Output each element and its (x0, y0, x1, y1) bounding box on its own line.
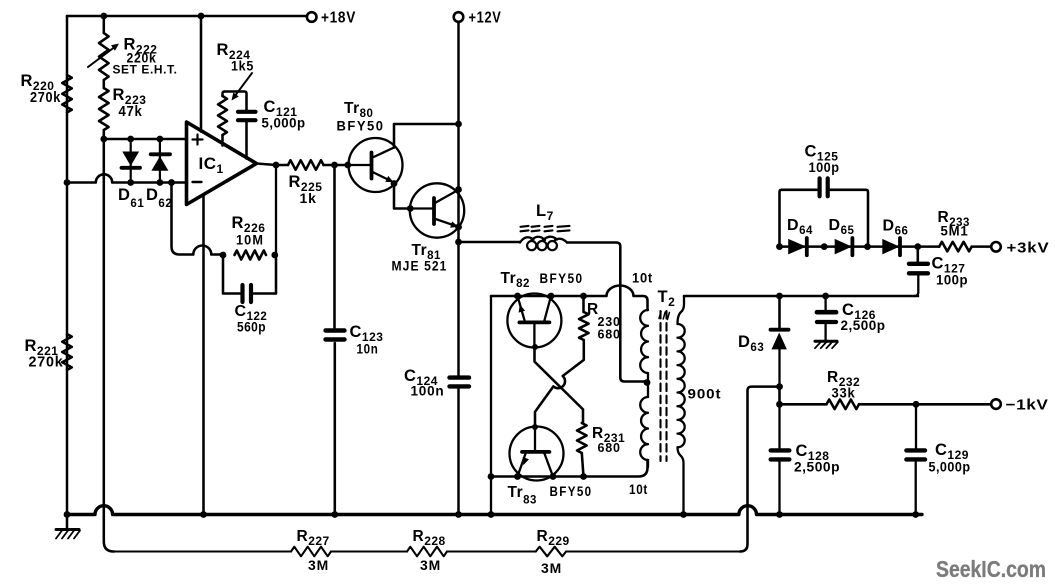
junction Tr81 base (407, 205, 414, 212)
wire +18V top rail (67, 15, 307, 18)
junction C129 / ground bus (912, 511, 919, 518)
junction R226 left (220, 252, 227, 259)
transformer T2 core (658, 288, 676, 461)
wire left rail (66, 16, 69, 515)
wire Tr80 collector to +12V rail (394, 124, 459, 148)
diode D62 (146, 139, 172, 210)
svg-text:+18V: +18V (321, 10, 356, 27)
junction Tr82 emitter top (514, 293, 521, 300)
wire R222-R223 (103, 80, 106, 88)
junction D61 top (127, 136, 134, 143)
wire - input to R226 with hop over IC1 bottom pin (172, 183, 224, 255)
transistor Tr81 (392, 183, 465, 273)
junction left rail / ground bus (488, 511, 495, 518)
wire R232 right to -1kV terminal (859, 403, 991, 406)
junction Tr81 emitter / rail (455, 224, 462, 231)
resistor R224 (217, 41, 255, 146)
resistor R230 (579, 296, 621, 342)
junction R231 bottom (580, 473, 587, 480)
junction left rail / ground bus (64, 511, 71, 518)
wire cross-coupling Tr82 base to R231 (535, 347, 584, 423)
svg-text:270k: 270k (30, 90, 61, 106)
capacitor C127 (909, 247, 968, 296)
junction D65-D66 / C125 node (864, 243, 871, 250)
svg-text:270k: 270k (29, 355, 64, 371)
transformer T2 primary lower winding (10t) (629, 383, 648, 498)
wire multivibrator top rail with hop over tap feed (491, 286, 648, 311)
resistor R229 (536, 528, 570, 576)
svg-text:1k: 1k (300, 190, 317, 206)
junction T2 secondary / ground bus (680, 511, 687, 518)
junction - input / R226 branch (168, 179, 175, 186)
ground (bottom left) (56, 515, 80, 539)
terminal -1kV (991, 397, 1048, 414)
capacitor C122 (223, 255, 276, 335)
wire IC1 supply pin (200, 16, 203, 132)
svg-text:MJE 521: MJE 521 (392, 259, 448, 274)
svg-text:SET E.H.T.: SET E.H.T. (113, 63, 178, 77)
diode D63 (738, 330, 789, 388)
junction C126 top (822, 293, 829, 300)
svg-text:2,500p: 2,500p (794, 460, 840, 475)
wire + input net (104, 138, 187, 141)
junction D66 / C127 node (914, 243, 921, 250)
wire Tr80 emitter to Tr81 base (394, 184, 410, 209)
junction top rail / IC1 supply (198, 13, 205, 20)
wire R229 line to D63 node (740, 387, 780, 552)
svg-text:−1kV: −1kV (1006, 397, 1049, 414)
wire R225 to Tr80 base (324, 164, 349, 167)
diode D65 (829, 217, 855, 255)
transistor Tr80 (337, 100, 403, 192)
svg-text:10t: 10t (632, 271, 653, 286)
junction C124 / ground bus (455, 511, 462, 518)
terminal +12V (454, 10, 502, 27)
svg-text:BFY50: BFY50 (540, 271, 584, 286)
wire multivibrator bottom rail (491, 460, 648, 477)
junction Tr83 collector top (532, 424, 538, 430)
svg-text:900t: 900t (688, 387, 722, 402)
svg-text:100p: 100p (809, 160, 840, 175)
junction R225 / C123 branch (331, 162, 338, 169)
wire D63 to R232 node (778, 387, 781, 405)
resistor R232 (827, 369, 861, 409)
svg-text:10t: 10t (629, 482, 648, 497)
svg-text:680: 680 (598, 441, 621, 455)
wire +12V rail (457, 22, 460, 515)
capacitor C129 (906, 404, 970, 514)
potentiometer R222 (88, 33, 178, 80)
resistor R228 (407, 528, 447, 573)
wire rectifier chain (780, 245, 992, 248)
resistor R226 (232, 214, 267, 260)
svg-text:10M: 10M (236, 232, 264, 248)
junction top rail / R222 branch (100, 13, 107, 20)
junction D62 top (157, 136, 164, 143)
wire R225 node to ground bus (C123 branch) (333, 165, 336, 515)
capacitor C121 (225, 92, 306, 159)
junction rail / L7 node (455, 239, 462, 246)
junction bottom rail left (488, 473, 495, 480)
svg-text:560p: 560p (237, 320, 266, 335)
junction D64 anode node (776, 243, 783, 250)
wire R232 line left (780, 403, 827, 406)
svg-text:3M: 3M (420, 558, 441, 573)
svg-text:2,500p: 2,500p (841, 318, 886, 333)
svg-text:680: 680 (598, 328, 621, 342)
junction Tr83 collector bottom (550, 473, 557, 480)
diode D61 (118, 139, 144, 210)
svg-text:100p: 100p (936, 273, 968, 288)
capacitor C123 (326, 323, 384, 357)
junction R232 / C129 node (913, 401, 920, 408)
transformer T2 primary upper winding (10t) (632, 271, 653, 383)
wire output node to R226 right (275, 165, 276, 255)
resistor R223 (99, 86, 146, 130)
resistor R233 (938, 209, 972, 251)
capacitor C128 (771, 404, 840, 514)
transformer T2 secondary winding (900t) (678, 296, 722, 515)
svg-text:BFY50: BFY50 (337, 119, 385, 134)
svg-text:3M: 3M (541, 561, 562, 576)
wire rail to L7 (459, 241, 521, 244)
capacitor C126 (817, 296, 886, 340)
junction C123 / ground bus (331, 511, 338, 518)
wire ground bus with hops (67, 506, 922, 515)
svg-text:1k5: 1k5 (231, 58, 254, 74)
diode D64 (787, 217, 813, 255)
op-amp IC1 (187, 122, 257, 205)
wire L7 to T2 centre tap (567, 243, 647, 382)
resistor R225 (288, 160, 324, 206)
junction Tr80 base (344, 162, 351, 169)
wire D64 node to D63 (778, 296, 781, 328)
svg-text:5,000p: 5,000p (929, 460, 971, 475)
transistor Tr82 (501, 270, 584, 348)
resistor R227 (291, 528, 331, 573)
svg-text:3M: 3M (308, 558, 329, 573)
inductor L7 (520, 202, 570, 250)
svg-text:100n: 100n (411, 383, 445, 399)
junction D64-D65 node (821, 243, 828, 250)
svg-text:5,000p: 5,000p (262, 115, 306, 131)
junction R230 top (580, 293, 587, 300)
capacitor C124 (404, 367, 469, 399)
junction R226 right (271, 252, 278, 259)
svg-text:+12V: +12V (469, 10, 502, 27)
wire IC1 bottom pin (202, 196, 205, 515)
transistor Tr83 (508, 427, 593, 507)
wire cross-coupling R230 to Tr83 with hop (535, 340, 584, 427)
junction Tr80 emitter (391, 180, 398, 187)
svg-text:5M1: 5M1 (941, 224, 969, 239)
junction IC1 bottom pin / ground bus (200, 511, 207, 518)
resistor R220 (21, 72, 72, 113)
junction R232 left node (776, 401, 783, 408)
wire secondary top to rectifier node (684, 295, 918, 298)
svg-text:47k: 47k (119, 104, 143, 120)
ground (C126) (815, 341, 838, 348)
junction Tr80 collector / rail (455, 121, 462, 128)
junction D63 top node (776, 293, 783, 300)
wire - input net with hop over R223 chain (67, 174, 187, 182)
junction D61 bottom (127, 179, 134, 186)
capacitor C125 (780, 143, 869, 247)
svg-text:+3kV: +3kV (1007, 240, 1050, 257)
junction R223 / + input net (100, 136, 107, 143)
wire lower feedback line (114, 550, 740, 552)
resistor R221 (25, 334, 72, 371)
svg-text:33k: 33k (832, 386, 856, 401)
wire R222 top lead (103, 16, 106, 33)
junction Tr83 emitter bottom (514, 473, 521, 480)
svg-text:BFY50: BFY50 (550, 484, 593, 499)
junction left rail / diode net (64, 179, 71, 186)
svg-text:SeekIC.com: SeekIC.com (936, 556, 1046, 582)
junction output / C123 upper branch (273, 162, 280, 169)
junction T2 centre tap (644, 379, 651, 386)
terminal +3kV (991, 240, 1049, 257)
wire R223 bottom to ground-bus chain (104, 130, 114, 552)
junction Tr82 base lead (532, 344, 538, 350)
resistor R231 (577, 423, 625, 477)
wire IC1 output (257, 164, 289, 166)
terminal +18V (307, 10, 356, 27)
diode D66 (882, 218, 908, 256)
junction Tr82 collector top (548, 293, 555, 300)
junction D62 bottom (157, 179, 164, 186)
junction Tr81 collector / rail (455, 186, 462, 193)
wire multivibrator left rail (490, 296, 492, 515)
svg-text:10n: 10n (357, 342, 379, 357)
junction C128 / ground bus (776, 511, 783, 518)
junction D63 / feedback wire (776, 383, 783, 390)
